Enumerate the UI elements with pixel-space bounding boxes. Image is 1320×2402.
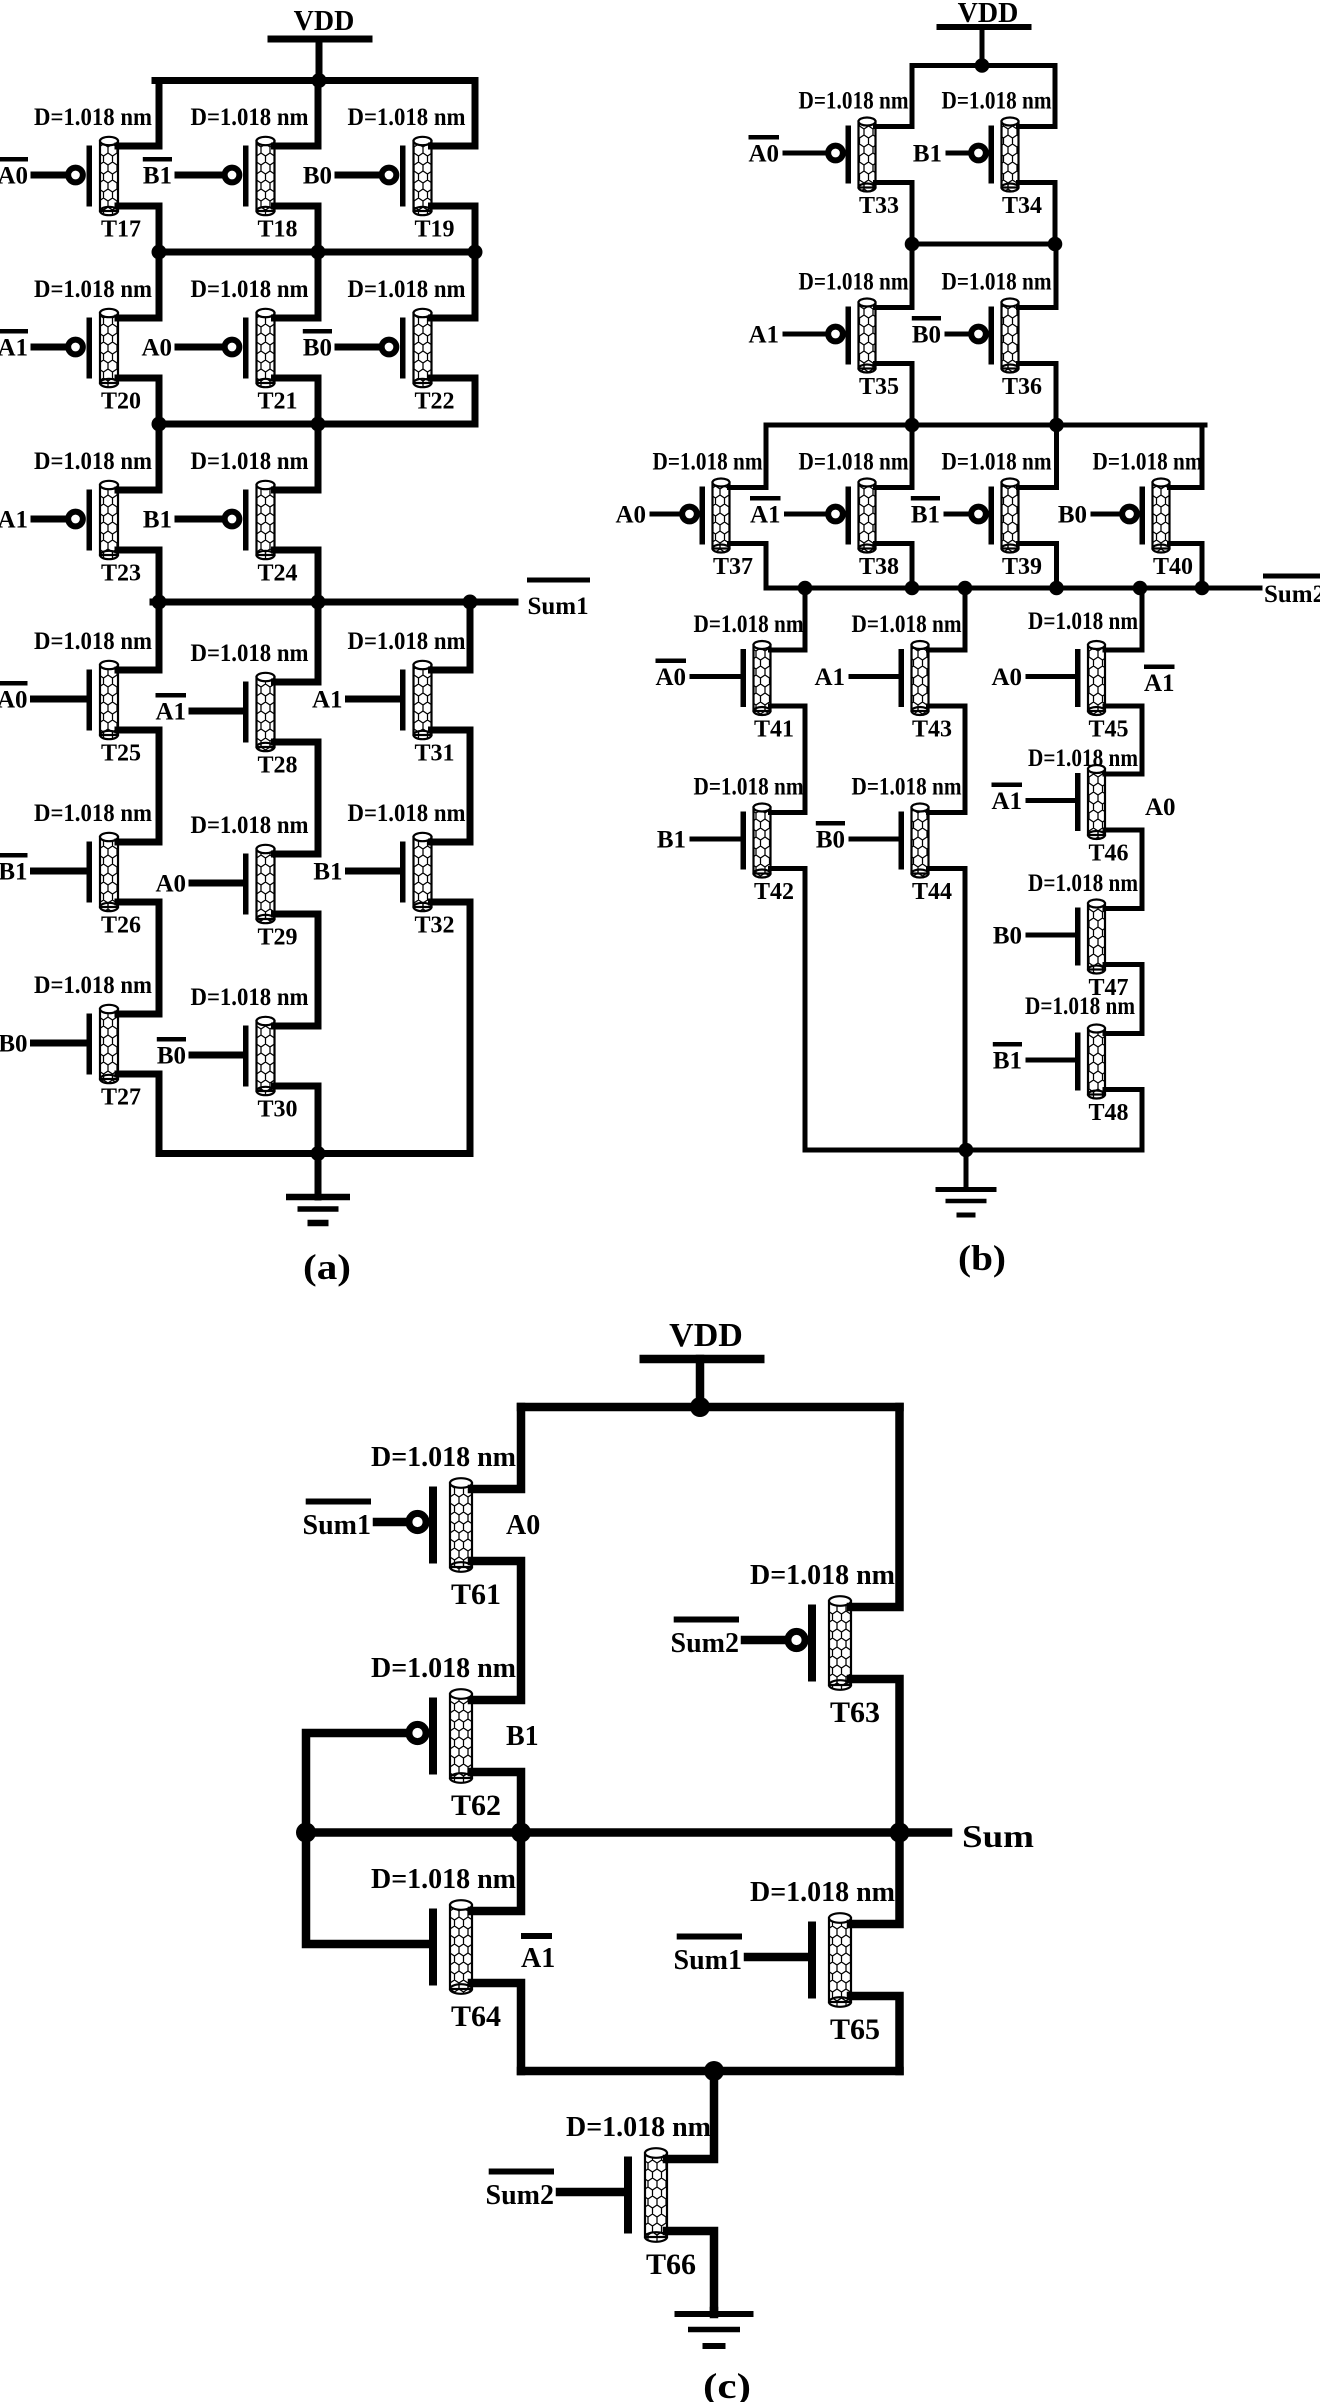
wire T34 source [1019, 183, 1056, 245]
wire T20 drain [118, 252, 159, 318]
svg-text:(c): (c) [703, 2366, 751, 2402]
svg-text:T29: T29 [257, 925, 297, 951]
gate net label nA1 for T46 [992, 783, 1023, 788]
transistor T19 (PMOS CNTFET) [338, 137, 432, 215]
wire T64 source to bottom rail [472, 1983, 521, 2071]
svg-text:D=1.018 nm: D=1.018 nm [942, 88, 1052, 115]
svg-text:D=1.018 nm: D=1.018 nm [694, 774, 804, 801]
transistor T61 (PMOS CNTFET) [377, 1478, 472, 1572]
transistor T28 (NMOS CNTFET) [192, 673, 275, 751]
svg-text:T41: T41 [754, 717, 794, 743]
wire T29 source to T30 drain [275, 914, 319, 1026]
ground symbol [286, 1194, 350, 1227]
svg-text:Sum1: Sum1 [674, 1945, 742, 1976]
svg-text:T32: T32 [414, 913, 454, 939]
transistor T17 (PMOS CNTFET) [34, 137, 118, 215]
svg-text:T33: T33 [859, 193, 899, 219]
svg-text:T23: T23 [101, 561, 141, 587]
svg-text:T17: T17 [101, 217, 141, 243]
wire T62 source to Sum rail [472, 1772, 521, 1833]
gate net label nA1 for T38 [750, 496, 781, 501]
node dot rail3-mid [311, 417, 326, 432]
wire T30 source to bottom rail [275, 1086, 319, 1154]
svg-text:D=1.018 nm: D=1.018 nm [750, 1560, 895, 1591]
transistor T23 (PMOS CNTFET) [34, 481, 118, 559]
svg-text:T27: T27 [101, 1085, 141, 1111]
wire T31 source to T32 drain [432, 730, 471, 842]
svg-text:B0: B0 [912, 322, 941, 349]
svg-text:T21: T21 [257, 389, 297, 415]
wire T62 gate feedback to Sum and T64 gate [306, 1733, 429, 1944]
wire T43 drain to Sum2 [929, 588, 966, 650]
svg-text:D=1.018 nm: D=1.018 nm [371, 1653, 516, 1684]
svg-text:D=1.018 nm: D=1.018 nm [799, 88, 909, 115]
wire T36 source [1019, 364, 1057, 426]
svg-text:B0: B0 [816, 827, 845, 854]
transistor T35 (PMOS CNTFET) [785, 299, 876, 373]
wire T17 drain [118, 81, 159, 147]
svg-text:T31: T31 [414, 741, 454, 767]
svg-text:D=1.018 nm: D=1.018 nm [191, 448, 309, 475]
power VDD bar [640, 1355, 765, 1364]
svg-text:D=1.018 nm: D=1.018 nm [348, 276, 466, 303]
wire T65 drain to Sum rail [851, 1833, 900, 1925]
svg-text:T37: T37 [713, 554, 753, 580]
svg-text:B0: B0 [1058, 502, 1087, 529]
node dot (b) Sum2-6 [1195, 581, 1210, 596]
node dot bottom rail (c) [704, 2061, 724, 2081]
wire T36 drain [1019, 244, 1057, 308]
svg-text:D=1.018 nm: D=1.018 nm [348, 104, 466, 131]
svg-text:A0: A0 [141, 335, 172, 362]
svg-text:T34: T34 [1002, 193, 1042, 219]
wire T26 source to T27 drain [118, 902, 159, 1014]
wire bottom rail (b) [805, 1148, 1142, 1153]
wire T18 source [275, 206, 319, 252]
svg-text:Sum: Sum [962, 1818, 1034, 1854]
svg-text:T42: T42 [754, 879, 794, 905]
gate net label nSum2 for T63 [674, 1617, 739, 1623]
wire VDD rail (b) [912, 63, 1055, 68]
svg-text:D=1.018 nm: D=1.018 nm [34, 104, 152, 131]
wire T40 drain [1170, 425, 1203, 488]
wire T19 source [432, 206, 476, 252]
svg-text:B1: B1 [143, 507, 172, 534]
svg-text:(a): (a) [303, 1247, 351, 1287]
transistor T21 (PMOS CNTFET) [178, 309, 275, 387]
gate net label nB0 for T36 [912, 316, 941, 321]
wire T42 source to bottom rail [771, 869, 806, 1151]
wire T18 drain [275, 81, 319, 147]
svg-text:A0: A0 [748, 141, 779, 168]
wire T65 source to bottom rail [851, 1996, 900, 2071]
svg-text:T30: T30 [257, 1097, 297, 1123]
svg-text:Sum1: Sum1 [528, 593, 589, 620]
gate net label nB0 for T22 [303, 329, 332, 334]
wire T48 source to bottom rail [1105, 1090, 1142, 1151]
transistor T25 (NMOS CNTFET) [34, 661, 119, 739]
gate net label nSum1 for T61 [306, 1499, 371, 1505]
svg-text:D=1.018 nm: D=1.018 nm [750, 1877, 895, 1908]
gate net label nA0 for T33 [749, 135, 780, 140]
wire T45 drain to Sum2 [1105, 588, 1142, 650]
svg-text:T48: T48 [1088, 1100, 1128, 1126]
node dot rail2-left [152, 245, 167, 260]
gate net label nB0 for T44 [816, 821, 845, 826]
transistor T46 (NMOS CNTFET) [1028, 765, 1105, 839]
svg-text:A0: A0 [655, 664, 686, 691]
gate net label nB1 for T26 [0, 853, 28, 858]
svg-text:B1: B1 [657, 827, 686, 854]
wire T64 drain to Sum rail [472, 1833, 521, 1912]
node dot Sum1-left [152, 595, 167, 610]
transistor T47 (NMOS CNTFET) [1028, 900, 1105, 974]
svg-text:A0: A0 [615, 502, 646, 529]
svg-text:A1: A1 [750, 502, 781, 529]
wire Sum output rail (c) [306, 1828, 948, 1837]
wire T23 source [118, 550, 159, 602]
transistor T22 (PMOS CNTFET) [338, 309, 432, 387]
ground symbol [936, 1187, 997, 1218]
svg-text:T22: T22 [414, 389, 454, 415]
svg-text:D=1.018 nm: D=1.018 nm [191, 640, 309, 667]
svg-text:T20: T20 [101, 389, 141, 415]
node dot (b) Sum2-1 [798, 581, 813, 596]
wire T21 source [275, 378, 319, 424]
svg-text:B1: B1 [313, 859, 342, 886]
svg-text:A1: A1 [0, 335, 28, 362]
wire T34 drain [1019, 66, 1056, 127]
transistor T45 (NMOS CNTFET) [1028, 641, 1105, 715]
wire T33 drain [876, 66, 913, 127]
wire T46 source to T47 drain [1105, 830, 1142, 909]
wire ground stem [964, 1150, 969, 1190]
node VDD junction dot (b) [975, 58, 990, 73]
node dot (b) rail2-left [905, 237, 920, 252]
node dot (b) Sum2-3 [958, 581, 973, 596]
svg-text:D=1.018 nm: D=1.018 nm [371, 1864, 516, 1895]
svg-text:VDD: VDD [294, 6, 355, 37]
transistor T64 (NMOS CNTFET) [429, 1900, 472, 1994]
wire internal rail node1 (b) [912, 242, 1055, 247]
svg-text:A1: A1 [991, 788, 1022, 815]
transistor T30 (NMOS CNTFET) [192, 1017, 275, 1095]
gate net label (right) nA1 for T45 [1144, 665, 1175, 670]
svg-text:B0: B0 [303, 335, 332, 362]
node dot bottom rail (b) [959, 1143, 974, 1158]
node dot Sum1-mid [311, 595, 326, 610]
gate net label nA0 for T17 [0, 157, 28, 162]
transistor T18 (PMOS CNTFET) [178, 137, 275, 215]
wire T44 source to bottom rail [929, 869, 966, 1151]
gate net label nB1 for T18 [143, 157, 172, 162]
node dot (b) Sum2-2 [905, 581, 920, 596]
svg-text:T63: T63 [830, 1696, 880, 1729]
svg-text:D=1.018 nm: D=1.018 nm [1028, 870, 1138, 897]
node dot Sum-right [890, 1823, 910, 1843]
svg-text:Sum2: Sum2 [671, 1628, 739, 1659]
svg-text:B1: B1 [913, 141, 942, 168]
wire VDD stem [980, 27, 985, 66]
node dot rail2-right [468, 245, 483, 260]
node dot (b) rail2-right [1048, 237, 1063, 252]
svg-text:A0: A0 [1145, 794, 1176, 821]
power VDD bar [268, 36, 373, 43]
svg-text:T36: T36 [1002, 374, 1042, 400]
svg-text:A0: A0 [0, 163, 28, 190]
transistor T48 (NMOS CNTFET) [1028, 1025, 1105, 1099]
svg-text:D=1.018 nm: D=1.018 nm [34, 276, 152, 303]
wire T66 drain to node [667, 2071, 714, 2159]
svg-text:D=1.018 nm: D=1.018 nm [191, 984, 309, 1011]
svg-text:A1: A1 [0, 507, 28, 534]
svg-text:D=1.018 nm: D=1.018 nm [34, 800, 152, 827]
wire T41 drain to Sum2 [771, 588, 806, 650]
svg-text:B1: B1 [506, 1721, 539, 1752]
wire internal rail node1 (a) [159, 249, 475, 256]
wire Sum2 output rail (b) [766, 586, 1260, 591]
gate net label nA1 for T20 [0, 329, 28, 334]
svg-text:D=1.018 nm: D=1.018 nm [348, 800, 466, 827]
svg-text:D=1.018 nm: D=1.018 nm [34, 628, 152, 655]
wire T21 drain [275, 252, 319, 318]
transistor T36 (PMOS CNTFET) [947, 299, 1019, 373]
node dot rail3-left [152, 417, 167, 432]
transistor T62 (PMOS CNTFET) [409, 1689, 472, 1783]
svg-text:D=1.018 nm: D=1.018 nm [191, 276, 309, 303]
node dot Sum1-right [463, 595, 478, 610]
gate net label nA1 for T28 [156, 693, 187, 698]
svg-text:D=1.018 nm: D=1.018 nm [852, 611, 962, 638]
transistor T31 (NMOS CNTFET) [349, 661, 432, 739]
gate net label nB1 for T39 [911, 496, 940, 501]
svg-text:T65: T65 [830, 2013, 880, 2046]
svg-text:T35: T35 [859, 374, 899, 400]
svg-text:A1: A1 [521, 1943, 555, 1974]
node dot (b) Sum2-4 [1049, 581, 1064, 596]
wire T63 source to Sum rail [851, 1679, 900, 1833]
gate net label nSum2 for T66 [489, 2169, 554, 2175]
wire VDD rail (c) [521, 1403, 900, 1412]
wire T24 source [275, 550, 319, 602]
node dot (b) Sum2-5 [1133, 581, 1148, 596]
wire T22 source [432, 378, 476, 424]
wire T40 source [1170, 544, 1203, 589]
svg-text:A1: A1 [814, 664, 845, 691]
svg-text:(b): (b) [958, 1238, 1006, 1278]
gate net label nA0 for T25 [0, 681, 28, 686]
svg-text:B1: B1 [993, 1048, 1022, 1075]
svg-text:D=1.018 nm: D=1.018 nm [348, 628, 466, 655]
svg-text:B0: B0 [993, 923, 1022, 950]
transistor T32 (NMOS CNTFET) [349, 833, 432, 911]
wire T19 drain [432, 81, 476, 147]
svg-text:T44: T44 [912, 879, 952, 905]
transistor T26 (NMOS CNTFET) [34, 833, 119, 911]
transistor T63 (PMOS CNTFET) [745, 1596, 851, 1690]
svg-text:T25: T25 [101, 741, 141, 767]
transistor T38 (PMOS CNTFET) [787, 479, 876, 553]
svg-text:T64: T64 [451, 2000, 501, 2033]
gate net label nB1 for T48 [993, 1042, 1022, 1047]
wire T17 source [118, 206, 159, 252]
ground symbol [675, 2311, 754, 2349]
svg-text:B1: B1 [0, 859, 28, 886]
svg-text:T28: T28 [257, 753, 297, 779]
svg-text:Sum1: Sum1 [303, 1510, 371, 1541]
svg-text:A0: A0 [155, 871, 186, 898]
wire T24 drain [275, 424, 319, 490]
svg-text:D=1.018 nm: D=1.018 nm [694, 611, 804, 638]
wire T63 drain to VDD rail [851, 1407, 900, 1607]
wire T28 source to T29 drain [275, 742, 319, 854]
node dot Sum-mid [511, 1823, 531, 1843]
wire T43 source to T44 drain [929, 706, 966, 813]
svg-text:T40: T40 [1153, 554, 1193, 580]
node VDD junction dot (a) [312, 73, 327, 88]
svg-text:T61: T61 [451, 1578, 501, 1611]
wire T38 source [876, 544, 913, 589]
wire T38 drain [876, 425, 913, 488]
svg-text:D=1.018 nm: D=1.018 nm [191, 812, 309, 839]
svg-text:Sum2: Sum2 [1264, 581, 1320, 608]
svg-text:D=1.018 nm: D=1.018 nm [34, 972, 152, 999]
wire Sum1 output rail (a) [153, 599, 515, 606]
net label Sum2 (output of b) [1263, 574, 1320, 609]
net label Sum1 (output of a) [527, 578, 590, 621]
wire VDD stem [316, 39, 323, 81]
transistor T24 (PMOS CNTFET) [178, 481, 275, 559]
svg-text:D=1.018 nm: D=1.018 nm [799, 269, 909, 296]
wire T35 source [876, 364, 913, 426]
gate net label nB0 for T30 [157, 1037, 186, 1042]
svg-text:D=1.018 nm: D=1.018 nm [566, 2112, 711, 2143]
svg-text:T62: T62 [451, 1789, 501, 1822]
wire T32 source to bottom rail [432, 902, 471, 1154]
wire T47 source to T48 drain [1105, 965, 1142, 1034]
node VDD junction dot (c) [690, 1397, 710, 1417]
svg-text:D=1.018 nm: D=1.018 nm [371, 1442, 516, 1473]
svg-text:VDD: VDD [669, 1317, 743, 1354]
svg-text:T39: T39 [1002, 554, 1042, 580]
wire T37 drain [730, 425, 767, 488]
transistor T66 (NMOS CNTFET) [560, 2148, 667, 2242]
wire bottom rail (c) [521, 2067, 900, 2076]
node dot (b) rail3-left [905, 418, 920, 433]
transistor T65 (NMOS CNTFET) [748, 1913, 851, 2007]
svg-text:B0: B0 [157, 1043, 186, 1070]
wire T41 source to T42 drain [771, 706, 806, 813]
svg-text:A1: A1 [748, 322, 779, 349]
transistor T29 (NMOS CNTFET) [192, 845, 275, 923]
transistor T37 (PMOS CNTFET) [652, 479, 730, 553]
svg-text:A0: A0 [506, 1510, 540, 1541]
power VDD bar [937, 24, 1032, 30]
node dot bottom rail (a) [311, 1146, 326, 1161]
node dot rail2-mid [311, 245, 326, 260]
svg-text:T24: T24 [257, 561, 297, 587]
svg-text:B1: B1 [143, 163, 172, 190]
svg-text:A1: A1 [155, 699, 186, 726]
svg-text:D=1.018 nm: D=1.018 nm [1028, 745, 1138, 772]
transistor T20 (PMOS CNTFET) [34, 309, 118, 387]
svg-text:B1: B1 [911, 502, 940, 529]
svg-text:Sum2: Sum2 [486, 2180, 554, 2211]
wire T22 drain [432, 252, 476, 318]
svg-text:D=1.018 nm: D=1.018 nm [34, 448, 152, 475]
wire T25 drain to Sum1 [118, 602, 159, 670]
svg-text:A0: A0 [991, 664, 1022, 691]
wire T39 drain [1019, 425, 1057, 488]
wire T33 source [876, 183, 913, 245]
gate net label nA0 for T41 [656, 659, 687, 664]
wire ground stem [710, 2311, 719, 2314]
svg-text:D=1.018 nm: D=1.018 nm [1025, 993, 1135, 1020]
wire T25 source to T26 drain [118, 730, 159, 842]
svg-text:B0: B0 [0, 1031, 28, 1058]
wire T31 drain to Sum1 [432, 602, 471, 670]
wire T39 source [1019, 544, 1057, 589]
svg-text:D=1.018 nm: D=1.018 nm [942, 449, 1052, 476]
svg-text:D=1.018 nm: D=1.018 nm [852, 774, 962, 801]
wire T37 source [730, 544, 767, 589]
transistor T40 (PMOS CNTFET) [1093, 479, 1170, 553]
wire internal rail node2 (b) [766, 423, 1205, 428]
transistor T39 (PMOS CNTFET) [946, 479, 1019, 553]
svg-text:A1: A1 [1144, 670, 1175, 697]
wire T61 source to T62 drain [472, 1561, 521, 1700]
wire T35 drain [876, 244, 913, 308]
transistor T34 (PMOS CNTFET) [948, 118, 1019, 192]
wire VDD rail (a) [155, 77, 475, 84]
wire T20 source [118, 378, 159, 424]
wire internal rail node2 (a) [159, 421, 475, 428]
svg-text:D=1.018 nm: D=1.018 nm [191, 104, 309, 131]
wire bottom rail (a) [159, 1150, 470, 1157]
svg-text:T26: T26 [101, 913, 141, 939]
svg-text:D=1.018 nm: D=1.018 nm [1093, 449, 1203, 476]
transistor T27 (NMOS CNTFET) [34, 1005, 119, 1083]
svg-text:D=1.018 nm: D=1.018 nm [942, 269, 1052, 296]
svg-text:A1: A1 [312, 687, 343, 714]
wire T23 drain [118, 424, 159, 490]
transistor T44 (NMOS CNTFET) [851, 804, 929, 878]
svg-text:D=1.018 nm: D=1.018 nm [799, 449, 909, 476]
svg-text:D=1.018 nm: D=1.018 nm [653, 449, 763, 476]
svg-text:D=1.018 nm: D=1.018 nm [1028, 608, 1138, 635]
wire T27 source to bottom rail [118, 1074, 159, 1154]
wire VDD stem [696, 1359, 705, 1407]
svg-text:A0: A0 [0, 687, 28, 714]
transistor T41 (NMOS CNTFET) [692, 641, 771, 715]
wire T28 drain to Sum1 [275, 602, 319, 682]
wire T61 drain to VDD rail [472, 1407, 521, 1489]
wire T45 source to T46 drain [1105, 706, 1142, 774]
svg-text:T43: T43 [912, 717, 952, 743]
wire T66 source to ground [667, 2231, 714, 2312]
transistor T33 (PMOS CNTFET) [785, 118, 876, 192]
svg-text:T18: T18 [257, 217, 297, 243]
node dot (b) rail3-right [1049, 418, 1064, 433]
svg-text:T45: T45 [1088, 717, 1128, 743]
svg-text:T66: T66 [646, 2248, 696, 2281]
gate net label nSum1 for T65 [677, 1934, 742, 1940]
transistor T43 (NMOS CNTFET) [851, 641, 929, 715]
svg-text:T38: T38 [859, 554, 899, 580]
wire ground stem [315, 1154, 322, 1198]
svg-text:B0: B0 [303, 163, 332, 190]
node dot Sum-left [296, 1823, 316, 1843]
